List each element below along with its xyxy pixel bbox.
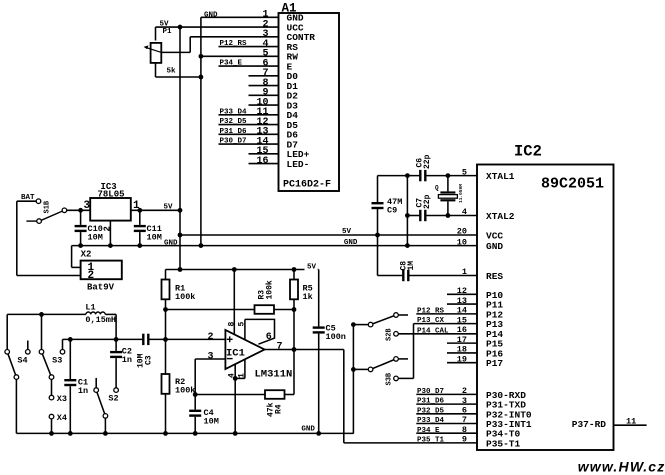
wire crystal top lead <box>447 176 449 192</box>
svg-text:L1: L1 <box>85 303 95 313</box>
switch S2B pivot <box>368 322 373 327</box>
svg-text:10: 10 <box>457 237 467 247</box>
svg-text:0,15mH: 0,15mH <box>85 315 116 325</box>
svg-text:P31_D6: P31_D6 <box>417 398 445 406</box>
node A at IC1 pin2 line <box>163 337 168 342</box>
node IC3 output to 5V vertical <box>178 208 183 213</box>
wire S2 bottom to GND bus <box>104 418 106 433</box>
node XTAL2 at gnd vertical <box>405 213 410 218</box>
svg-text:S3B: S3B <box>385 372 393 385</box>
node rail at R5 <box>292 267 297 272</box>
wire net P30_D7 to A1 pin 14 <box>219 143 279 145</box>
switch S3 contact right <box>60 350 65 355</box>
wire net P32_D5 to IC2 <box>416 413 477 415</box>
svg-text:3: 3 <box>208 352 214 363</box>
wire P1 bottom lead <box>155 63 157 77</box>
svg-text:S3: S3 <box>52 356 62 366</box>
svg-text:C9: C9 <box>387 206 397 216</box>
svg-text:XTAL1: XTAL1 <box>486 171 515 182</box>
node A line at C1 <box>68 337 73 342</box>
wire 5V net to A1 pin 2 <box>156 26 279 28</box>
capacitor C3 body <box>142 334 149 345</box>
svg-text:14: 14 <box>457 306 467 316</box>
svg-text:GND: GND <box>301 425 315 433</box>
wire analog GND bus <box>16 432 353 434</box>
svg-text:19: 19 <box>457 354 467 364</box>
wire RES net left part <box>378 275 403 277</box>
wire BAT to S1B contact <box>17 200 36 202</box>
wire GND bus <box>72 245 477 247</box>
wire X4 terminal to GND bus <box>51 419 53 434</box>
svg-text:11: 11 <box>626 417 636 427</box>
svg-text:2: 2 <box>88 270 95 282</box>
node rail at pin8 lead <box>232 267 237 272</box>
wire IC2 pin 11 stub <box>614 424 647 426</box>
svg-text:13: 13 <box>457 296 467 306</box>
node XTAL1 at crystal <box>446 173 451 178</box>
wire net P31_D6 to A1 pin 13 <box>219 133 279 135</box>
wire P1 wiper vertical <box>189 37 191 53</box>
node P1 bottom/GND <box>199 75 204 80</box>
svg-text:C3: C3 <box>145 355 154 365</box>
svg-text:S2B: S2B <box>385 328 393 341</box>
svg-text:X3: X3 <box>57 394 67 404</box>
node RW/GND <box>199 54 204 59</box>
wire P1 top terminal to 5V <box>155 27 157 40</box>
svg-text:R4: R4 <box>275 404 284 414</box>
wire net P33_D4 to A1 pin 11 <box>219 114 279 116</box>
wire S3B throw to P13_CX vertical <box>398 377 413 379</box>
svg-text:20: 20 <box>457 227 467 237</box>
switch S4 contact right <box>26 350 31 355</box>
capacitor C5 body <box>313 270 325 434</box>
wire R4 right lead <box>285 394 295 396</box>
capacitor C4 body <box>189 395 201 434</box>
wire S3B common <box>353 368 368 370</box>
svg-text:100k: 100k <box>175 386 195 396</box>
wire net P34_E to A1 pin 6 <box>219 65 279 67</box>
LCD module A1 body <box>279 13 340 191</box>
node A at R3 branch <box>163 307 168 312</box>
svg-text:P35-T1: P35-T1 <box>486 438 521 449</box>
resistor R1 body <box>162 280 170 300</box>
switch S1B lever <box>41 211 62 220</box>
svg-text:7: 7 <box>462 415 467 425</box>
svg-text:X2: X2 <box>81 250 92 260</box>
wire IC1 pin 3 horizontal <box>195 358 225 360</box>
potentiometer P1 wiper arrow <box>146 48 161 53</box>
svg-text:1k: 1k <box>303 292 313 302</box>
node XTAL1 at gnd vertical <box>405 173 410 178</box>
svg-text:BAT: BAT <box>21 194 35 202</box>
svg-text:P32_D5: P32_D5 <box>417 407 445 415</box>
label net 5V at rail (white background) <box>305 261 318 272</box>
svg-text:8: 8 <box>228 322 237 327</box>
capacitor C9 body <box>372 202 384 209</box>
wire P1 bottom to GND vertical <box>156 76 201 78</box>
svg-text:89C2051: 89C2051 <box>541 176 604 193</box>
wire R3 left lead <box>166 309 255 311</box>
wire IC1 pin 5 lead <box>244 319 246 340</box>
voltage regulator IC3 body <box>90 198 131 221</box>
wire IC1 gnd lead to bus <box>234 378 236 433</box>
svg-text:16: 16 <box>256 156 268 167</box>
svg-text:2: 2 <box>462 386 467 396</box>
svg-text:P1: P1 <box>163 28 173 36</box>
resistor R4 body <box>265 390 285 399</box>
svg-text:3: 3 <box>462 396 467 406</box>
wire stub A1 pin 10 D3 <box>249 104 279 106</box>
svg-text:100k: 100k <box>175 292 195 302</box>
switch S2B upper contact <box>394 313 399 318</box>
wire XTAL1 net left part <box>378 175 420 177</box>
wire S4 open contact stub <box>27 341 29 350</box>
svg-text:P35_T1: P35_T1 <box>417 437 445 445</box>
svg-text:P33_D4: P33_D4 <box>220 108 248 116</box>
wire net P12_RS to IC2 pin 14 <box>416 313 477 315</box>
switch S1B open contact <box>37 219 42 224</box>
wire X2 pin1 vertical <box>71 246 73 268</box>
wire net P31_D6 to IC2 <box>416 403 477 405</box>
svg-text:18: 18 <box>457 345 467 355</box>
node GND bus at A1 gnd vertical <box>199 243 204 248</box>
wire R5 top lead <box>293 270 295 280</box>
svg-text:GND: GND <box>486 241 503 252</box>
node bus at C5 <box>316 431 321 436</box>
resistor R2 body <box>162 374 170 394</box>
wire 5V feed vertical for C9/C8 <box>377 176 379 203</box>
capacitor C10 body <box>75 210 87 245</box>
svg-text:RES: RES <box>486 271 503 282</box>
svg-text:GND: GND <box>204 11 218 19</box>
svg-text:11.059M: 11.059M <box>458 184 464 203</box>
svg-text:2: 2 <box>103 226 113 231</box>
wire node A line left part (to C3) <box>63 338 143 340</box>
svg-text:Q: Q <box>435 185 439 192</box>
wire vertical P13_CX to S3B <box>413 324 415 379</box>
crystal Q body <box>440 191 455 193</box>
node bus at R2 <box>163 431 168 436</box>
terminal X3 <box>49 395 54 400</box>
capacitor C6 body <box>419 170 426 181</box>
node IC1 pins 1+4 <box>233 376 238 381</box>
svg-text:P13_CX: P13_CX <box>417 317 445 325</box>
terminal X4 <box>49 414 54 419</box>
svg-text:1n: 1n <box>122 355 132 365</box>
node S3B common <box>351 367 356 372</box>
wire S4 bottom to GND bus <box>15 379 17 433</box>
switch S4 pole <box>14 375 19 380</box>
wire battery plus vertical <box>16 201 18 275</box>
wire R4 left lead from node B <box>195 394 265 396</box>
node 5V bus left <box>178 233 183 238</box>
wire IC1 pin5-pin6 strap <box>245 319 275 344</box>
svg-text:5k: 5k <box>167 68 177 76</box>
svg-text:5: 5 <box>237 322 246 327</box>
svg-text:P33_D4: P33_D4 <box>417 417 445 425</box>
wire stub IC2 pin 18 <box>447 352 477 354</box>
wire IC1 pin 8 lead to rail <box>233 270 235 336</box>
resistor R3 body <box>255 305 275 314</box>
svg-text:P30_D7: P30_D7 <box>417 388 444 396</box>
svg-text:X4: X4 <box>57 413 67 423</box>
wire S2B open stub <box>398 314 408 316</box>
wire S1B common to IC3 input <box>67 209 91 211</box>
wire 5V vertical down to 5V bus and analog rail <box>179 27 181 269</box>
svg-text:P17: P17 <box>486 358 503 369</box>
wire L1 right lead <box>105 313 116 315</box>
node 5V bus at C9 <box>375 233 380 238</box>
switch S1B open contact stub <box>26 220 36 222</box>
capacitor C2 body <box>110 339 122 387</box>
svg-text:100k: 100k <box>266 280 275 299</box>
svg-text:7: 7 <box>277 342 283 353</box>
wire S4 lever <box>7 352 16 377</box>
node B at C4 <box>193 392 198 397</box>
wire IC1 pins 1+4 join <box>235 377 245 379</box>
wire S3B open stub <box>398 358 408 360</box>
wire R1 top lead <box>165 270 167 280</box>
svg-text:1M: 1M <box>407 261 416 271</box>
node rail S3 feed <box>39 312 44 317</box>
svg-text:PC16D2-F: PC16D2-F <box>283 180 331 191</box>
svg-text:1n: 1n <box>78 386 88 396</box>
svg-text:2: 2 <box>208 332 214 343</box>
wire IC1 output pin 7 <box>265 349 344 351</box>
svg-text:17: 17 <box>457 335 467 345</box>
wire S2B lever <box>371 315 396 325</box>
wire net P14_CAL from S2B to IC2 pin 16 <box>398 333 477 335</box>
wire net P13_CX to IC2 pin 15 <box>414 323 478 325</box>
node rail at 5V vertical <box>178 267 183 272</box>
svg-text:10M: 10M <box>88 233 103 243</box>
wire IC1 pin 3 vertical to node B <box>194 359 196 395</box>
switch S1B throw contact (BAT) <box>36 199 41 204</box>
node GND bus at C10 <box>78 243 83 248</box>
wire S3B lever <box>371 359 396 370</box>
wire IC3 output to 5V vertical <box>131 209 180 211</box>
wire net P33_D4 to IC2 <box>416 423 477 425</box>
wire stub IC2 pin 12 <box>447 293 477 295</box>
svg-text:5: 5 <box>462 167 467 177</box>
wire S4 feed vertical <box>6 314 8 349</box>
wire R3 right lead <box>274 309 294 311</box>
switch S2 pole <box>103 414 108 419</box>
wire net P12_RS to A1 pin 4 <box>219 46 279 48</box>
switch S3 contact left <box>39 350 44 355</box>
svg-text:5V: 5V <box>342 228 352 236</box>
wire X2 pin1 horizontal <box>72 266 81 268</box>
wire analog 5V rail <box>166 269 319 271</box>
svg-text:4: 4 <box>228 373 237 378</box>
resistor R5 body <box>290 280 298 300</box>
wire R4 vertical to output node <box>293 350 295 395</box>
wire stub A1 pin 8 D1 <box>249 85 279 87</box>
switch S2 contact right <box>114 388 119 393</box>
label IC1 minus input <box>227 358 233 360</box>
svg-text:S2: S2 <box>108 394 118 404</box>
svg-text:S1B: S1B <box>44 200 52 213</box>
svg-text:8: 8 <box>462 425 467 435</box>
svg-text:22p: 22p <box>423 194 432 209</box>
svg-text:IC2: IC2 <box>514 143 542 161</box>
op-amp comparator IC1 triangle <box>225 330 264 369</box>
wire stub IC2 pin 13 <box>447 303 477 305</box>
wire S3 lever <box>42 352 52 377</box>
node A line at L1/C2 <box>114 337 119 342</box>
wire node A line right part to IC1 pin 2 <box>149 338 225 340</box>
label IC1 plus input <box>227 338 233 340</box>
wire XTAL2 net right part to IC2 pin 4 <box>426 215 477 217</box>
wire R5 bottom lead to output <box>293 299 295 349</box>
svg-text:P34_E: P34_E <box>417 427 440 435</box>
wire stub IC2 pin 17 <box>447 342 477 344</box>
svg-text:P14_CAL: P14_CAL <box>417 327 449 335</box>
node GND bus at C11 <box>137 243 142 248</box>
switch S4 contact left <box>5 350 10 355</box>
wire net P35_T1 from comparator to IC2 pin 9 <box>344 442 477 444</box>
svg-text:6: 6 <box>462 406 467 416</box>
wire P1 wiper horizontal <box>161 51 190 53</box>
wire L1 rail left part <box>7 313 86 315</box>
wire XTAL1 net right part to IC2 pin 5 <box>426 175 477 177</box>
svg-text:10M: 10M <box>204 417 219 427</box>
svg-text:P32_D5: P32_D5 <box>220 118 248 126</box>
svg-text:S4: S4 <box>17 356 27 366</box>
svg-text:P34_E: P34_E <box>220 60 243 68</box>
switch S1B common pivot <box>62 208 67 213</box>
svg-text:LED-: LED- <box>287 159 310 170</box>
switch S3B pivot <box>368 367 373 372</box>
svg-text:22p: 22p <box>423 154 432 169</box>
svg-text:IC1: IC1 <box>226 348 245 360</box>
node bus at X4 <box>49 431 54 436</box>
inductor L1 coil <box>86 312 105 314</box>
wire stub A1 pin 7 D0 <box>249 75 279 77</box>
wire stub A1 pin 9 D2 <box>249 94 279 96</box>
wire RES net right part to IC2 pin 1 <box>410 275 478 277</box>
svg-text:GND: GND <box>164 239 178 247</box>
svg-text:4: 4 <box>462 207 467 217</box>
wire X2 pin2 to battery vertical <box>17 275 81 277</box>
svg-text:1: 1 <box>133 200 140 212</box>
wire switch common vertical to GND bus <box>352 325 354 434</box>
wire RW (A1 pin 5) to GND vertical <box>201 55 279 57</box>
node GND bus at IC3 <box>108 243 113 248</box>
svg-text:3: 3 <box>84 200 91 212</box>
svg-text:www.HW.cz: www.HW.cz <box>578 459 665 475</box>
wire net P32_D5 to A1 pin 12 <box>219 124 279 126</box>
capacitor C7 body <box>419 210 426 221</box>
node 5V at P1 top <box>178 25 183 30</box>
svg-text:16: 16 <box>457 325 467 335</box>
wire S2B common <box>353 324 368 326</box>
node bus at C1 <box>68 431 73 436</box>
wire R1 bottom to R2 top (node A) <box>165 299 167 374</box>
node XTAL2 at crystal <box>446 213 451 218</box>
switch S3B lower contact <box>394 376 399 381</box>
wire S3 feed vertical <box>41 314 43 349</box>
svg-text:9: 9 <box>462 435 467 445</box>
potentiometer P1 body <box>151 43 162 63</box>
switch S2 contact left <box>94 388 99 393</box>
svg-text:1: 1 <box>237 373 246 378</box>
svg-text:P12_RS: P12_RS <box>220 40 248 48</box>
svg-text:P31_D6: P31_D6 <box>220 128 248 136</box>
wire comparator output vertical <box>343 350 345 443</box>
wire C9 bottom to 5V bus to C8 corner <box>377 209 379 276</box>
capacitor C11 body <box>134 210 146 245</box>
svg-text:Bat9V: Bat9V <box>87 283 115 293</box>
svg-text:15: 15 <box>457 315 467 325</box>
svg-text:1: 1 <box>462 267 467 277</box>
wire XTAL2 net left part <box>407 215 419 217</box>
svg-text:100n: 100n <box>326 332 346 342</box>
wire IC1 pin 4 lead <box>234 364 236 378</box>
node S2B common <box>351 322 356 327</box>
svg-text:12: 12 <box>457 286 467 296</box>
svg-text:6: 6 <box>266 332 272 343</box>
wire S3 right contact to node A line <box>62 339 64 349</box>
wire net P34_E to IC2 <box>416 432 477 434</box>
svg-text:P12_RS: P12_RS <box>417 307 445 315</box>
svg-text:VCC: VCC <box>486 231 503 242</box>
wire IC1 pin 1 lead <box>244 359 246 378</box>
wire crystal bottom lead <box>447 201 449 215</box>
node bus at IC1 gnd <box>233 431 238 436</box>
switch S3B upper contact <box>394 357 399 362</box>
battery connector X2 body <box>81 261 122 280</box>
wire CONTR to A1 pin 3 <box>190 36 278 38</box>
microcontroller IC2 body <box>477 165 614 451</box>
node bus at C4 <box>193 431 198 436</box>
wire net P30_D7 to IC2 <box>416 393 477 395</box>
wire stub A1 pin 16 LED- <box>249 163 279 165</box>
node IC3 input <box>78 208 83 213</box>
wire stub IC2 pin 19 <box>447 362 477 364</box>
switch S2B lower contact <box>394 332 399 337</box>
wire R2 bottom lead to GND bus <box>165 394 167 434</box>
svg-text:XTAL2: XTAL2 <box>486 211 515 222</box>
svg-text:5V: 5V <box>164 203 174 211</box>
node output at R5/R4 <box>292 347 297 352</box>
svg-text:GND: GND <box>344 239 358 247</box>
node C11 top <box>137 208 142 213</box>
node bus at S2 <box>103 431 108 436</box>
wire stub A1 pin 15 LED+ <box>249 153 279 155</box>
wire crystal-caps common vertical to GND bus <box>406 176 408 246</box>
svg-text:78L05: 78L05 <box>98 190 125 200</box>
wire L1 down to node A line <box>115 314 117 339</box>
wire 5V bus to IC2 VCC <box>180 234 477 236</box>
svg-text:5V: 5V <box>307 263 317 271</box>
wire S2 lever <box>96 390 105 416</box>
switch S3 pole <box>49 375 54 380</box>
wire S2 open contact stub <box>95 378 97 388</box>
svg-text:P37-RD: P37-RD <box>572 419 607 430</box>
capacitor C1 body <box>64 339 76 433</box>
svg-text:LM311N: LM311N <box>255 369 293 381</box>
wire GND vertical from A1 pin 1 down to GND bus <box>200 17 202 245</box>
capacitor C8 body <box>402 270 409 281</box>
wire IC3 ground lead <box>109 221 111 246</box>
node GND bus at crystal gnd <box>405 243 410 248</box>
wire S3 to X3 terminal <box>51 379 53 395</box>
svg-text:10M: 10M <box>147 233 162 243</box>
node R3 right at R5 lead <box>292 307 297 312</box>
wire GND net to A1 pin 1 <box>201 16 279 18</box>
svg-text:P30_D7: P30_D7 <box>220 138 247 146</box>
